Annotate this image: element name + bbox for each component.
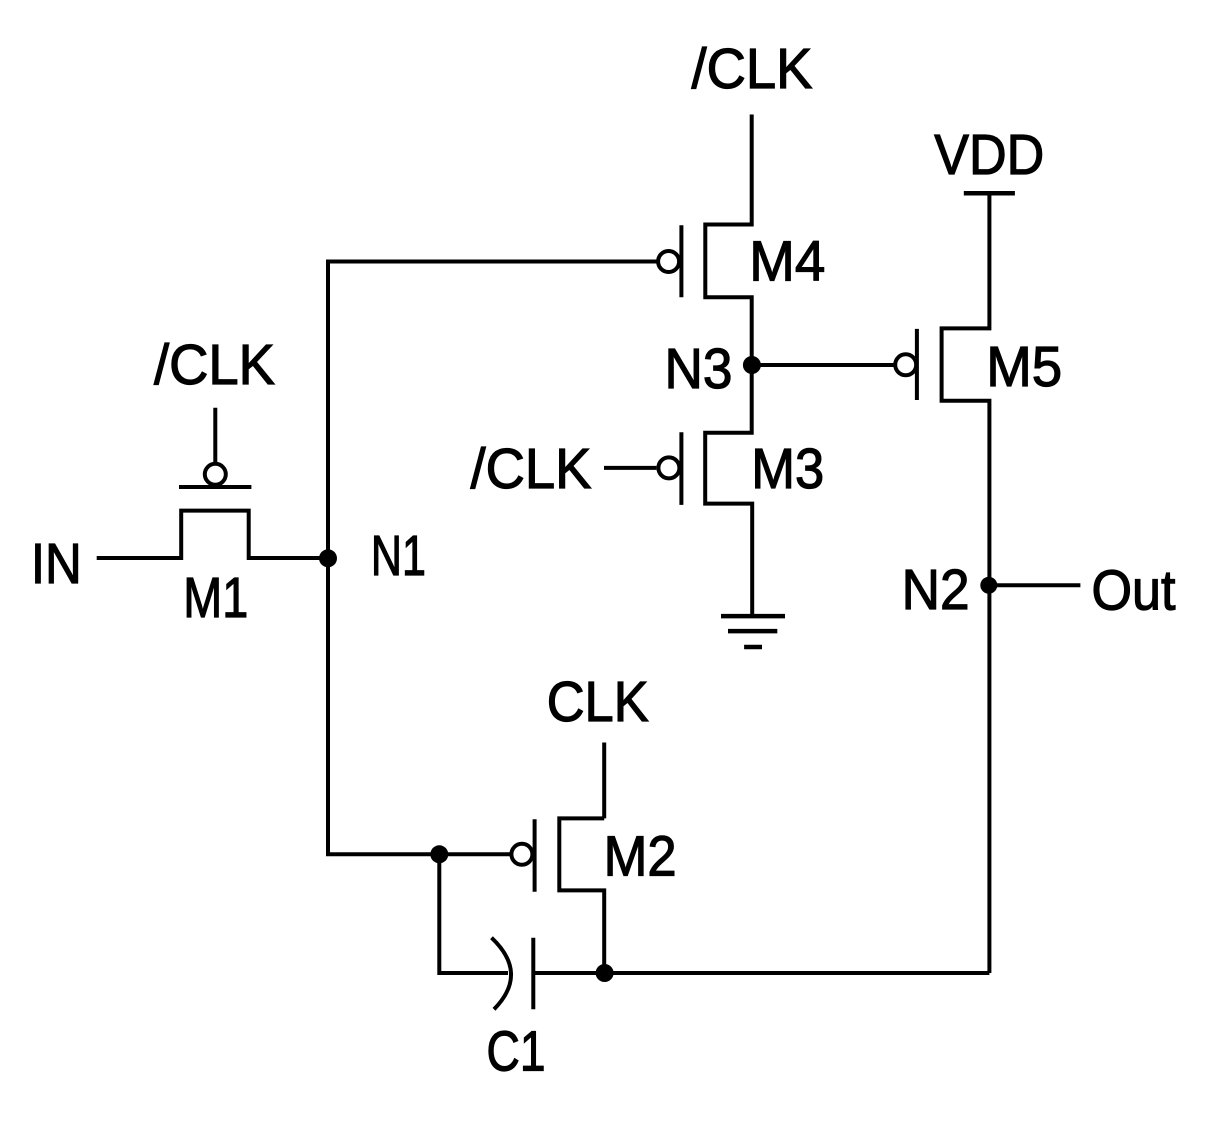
node junction at M2 gate wire	[430, 845, 448, 863]
transistor M2 body	[559, 818, 604, 973]
transistor M3 body, source to ground	[705, 365, 752, 616]
svg-text:/CLK: /CLK	[154, 333, 275, 397]
ground	[721, 614, 785, 619]
svg-text:VDD: VDD	[934, 123, 1044, 187]
VDD supply bar	[964, 191, 1015, 196]
svg-text:/CLK: /CLK	[692, 37, 813, 101]
svg-text:N1: N1	[371, 524, 426, 588]
transistor M3 gate bubble	[658, 457, 679, 478]
bottom wire C1 to N2 bus	[533, 971, 989, 975]
transistor M3 gate bar	[679, 432, 683, 505]
transistor M1 gate plate	[179, 485, 251, 489]
wire IN to N1 with M1 channel hump	[97, 511, 328, 558]
svg-text:M1: M1	[183, 566, 248, 630]
wire N3 to M5 gate	[752, 363, 895, 367]
transistor M2 gate lead from CLK	[602, 743, 606, 819]
transistor M1 gate lead	[213, 408, 217, 463]
transistor M2 gate bar	[533, 819, 537, 892]
svg-text:C1: C1	[487, 1020, 546, 1084]
node N2	[980, 577, 997, 594]
wire /CLK to M3 gate	[604, 466, 656, 470]
svg-text:M5: M5	[986, 335, 1062, 399]
transistor M4 gate bar	[679, 225, 683, 297]
svg-text:M4: M4	[749, 230, 825, 294]
svg-text:N2: N2	[902, 558, 970, 622]
svg-text:Out: Out	[1092, 559, 1176, 623]
transistor M4 gate bubble	[658, 251, 679, 272]
transistor M5 gate bar	[915, 329, 919, 400]
wire N1 bus: up, right to M4 gate; down, right to M2 gate	[328, 262, 658, 855]
svg-text:M3: M3	[751, 437, 824, 501]
transistor M2 gate bubble	[511, 844, 532, 865]
svg-text:IN: IN	[31, 532, 82, 596]
node N1	[319, 549, 337, 567]
transistor M1 gate bubble	[205, 464, 226, 485]
capacitor C1 straight plate	[531, 938, 535, 1010]
svg-text:/CLK: /CLK	[471, 437, 592, 501]
transistor M5 body: VDD lead, channel, N2 bus down to bottom wire	[942, 193, 990, 973]
transistor M4 body and /CLK drain lead	[705, 115, 751, 366]
transistor M5 gate bubble	[895, 354, 916, 375]
svg-text:N3: N3	[665, 337, 733, 401]
node N3	[743, 356, 761, 374]
wire junction down to C1	[439, 854, 508, 973]
capacitor C1 curved plate	[492, 938, 512, 1010]
svg-text:M2: M2	[604, 825, 677, 889]
node at M2 source / C1	[596, 964, 614, 982]
wire N2 to Out	[989, 583, 1081, 587]
svg-text:CLK: CLK	[547, 670, 649, 734]
